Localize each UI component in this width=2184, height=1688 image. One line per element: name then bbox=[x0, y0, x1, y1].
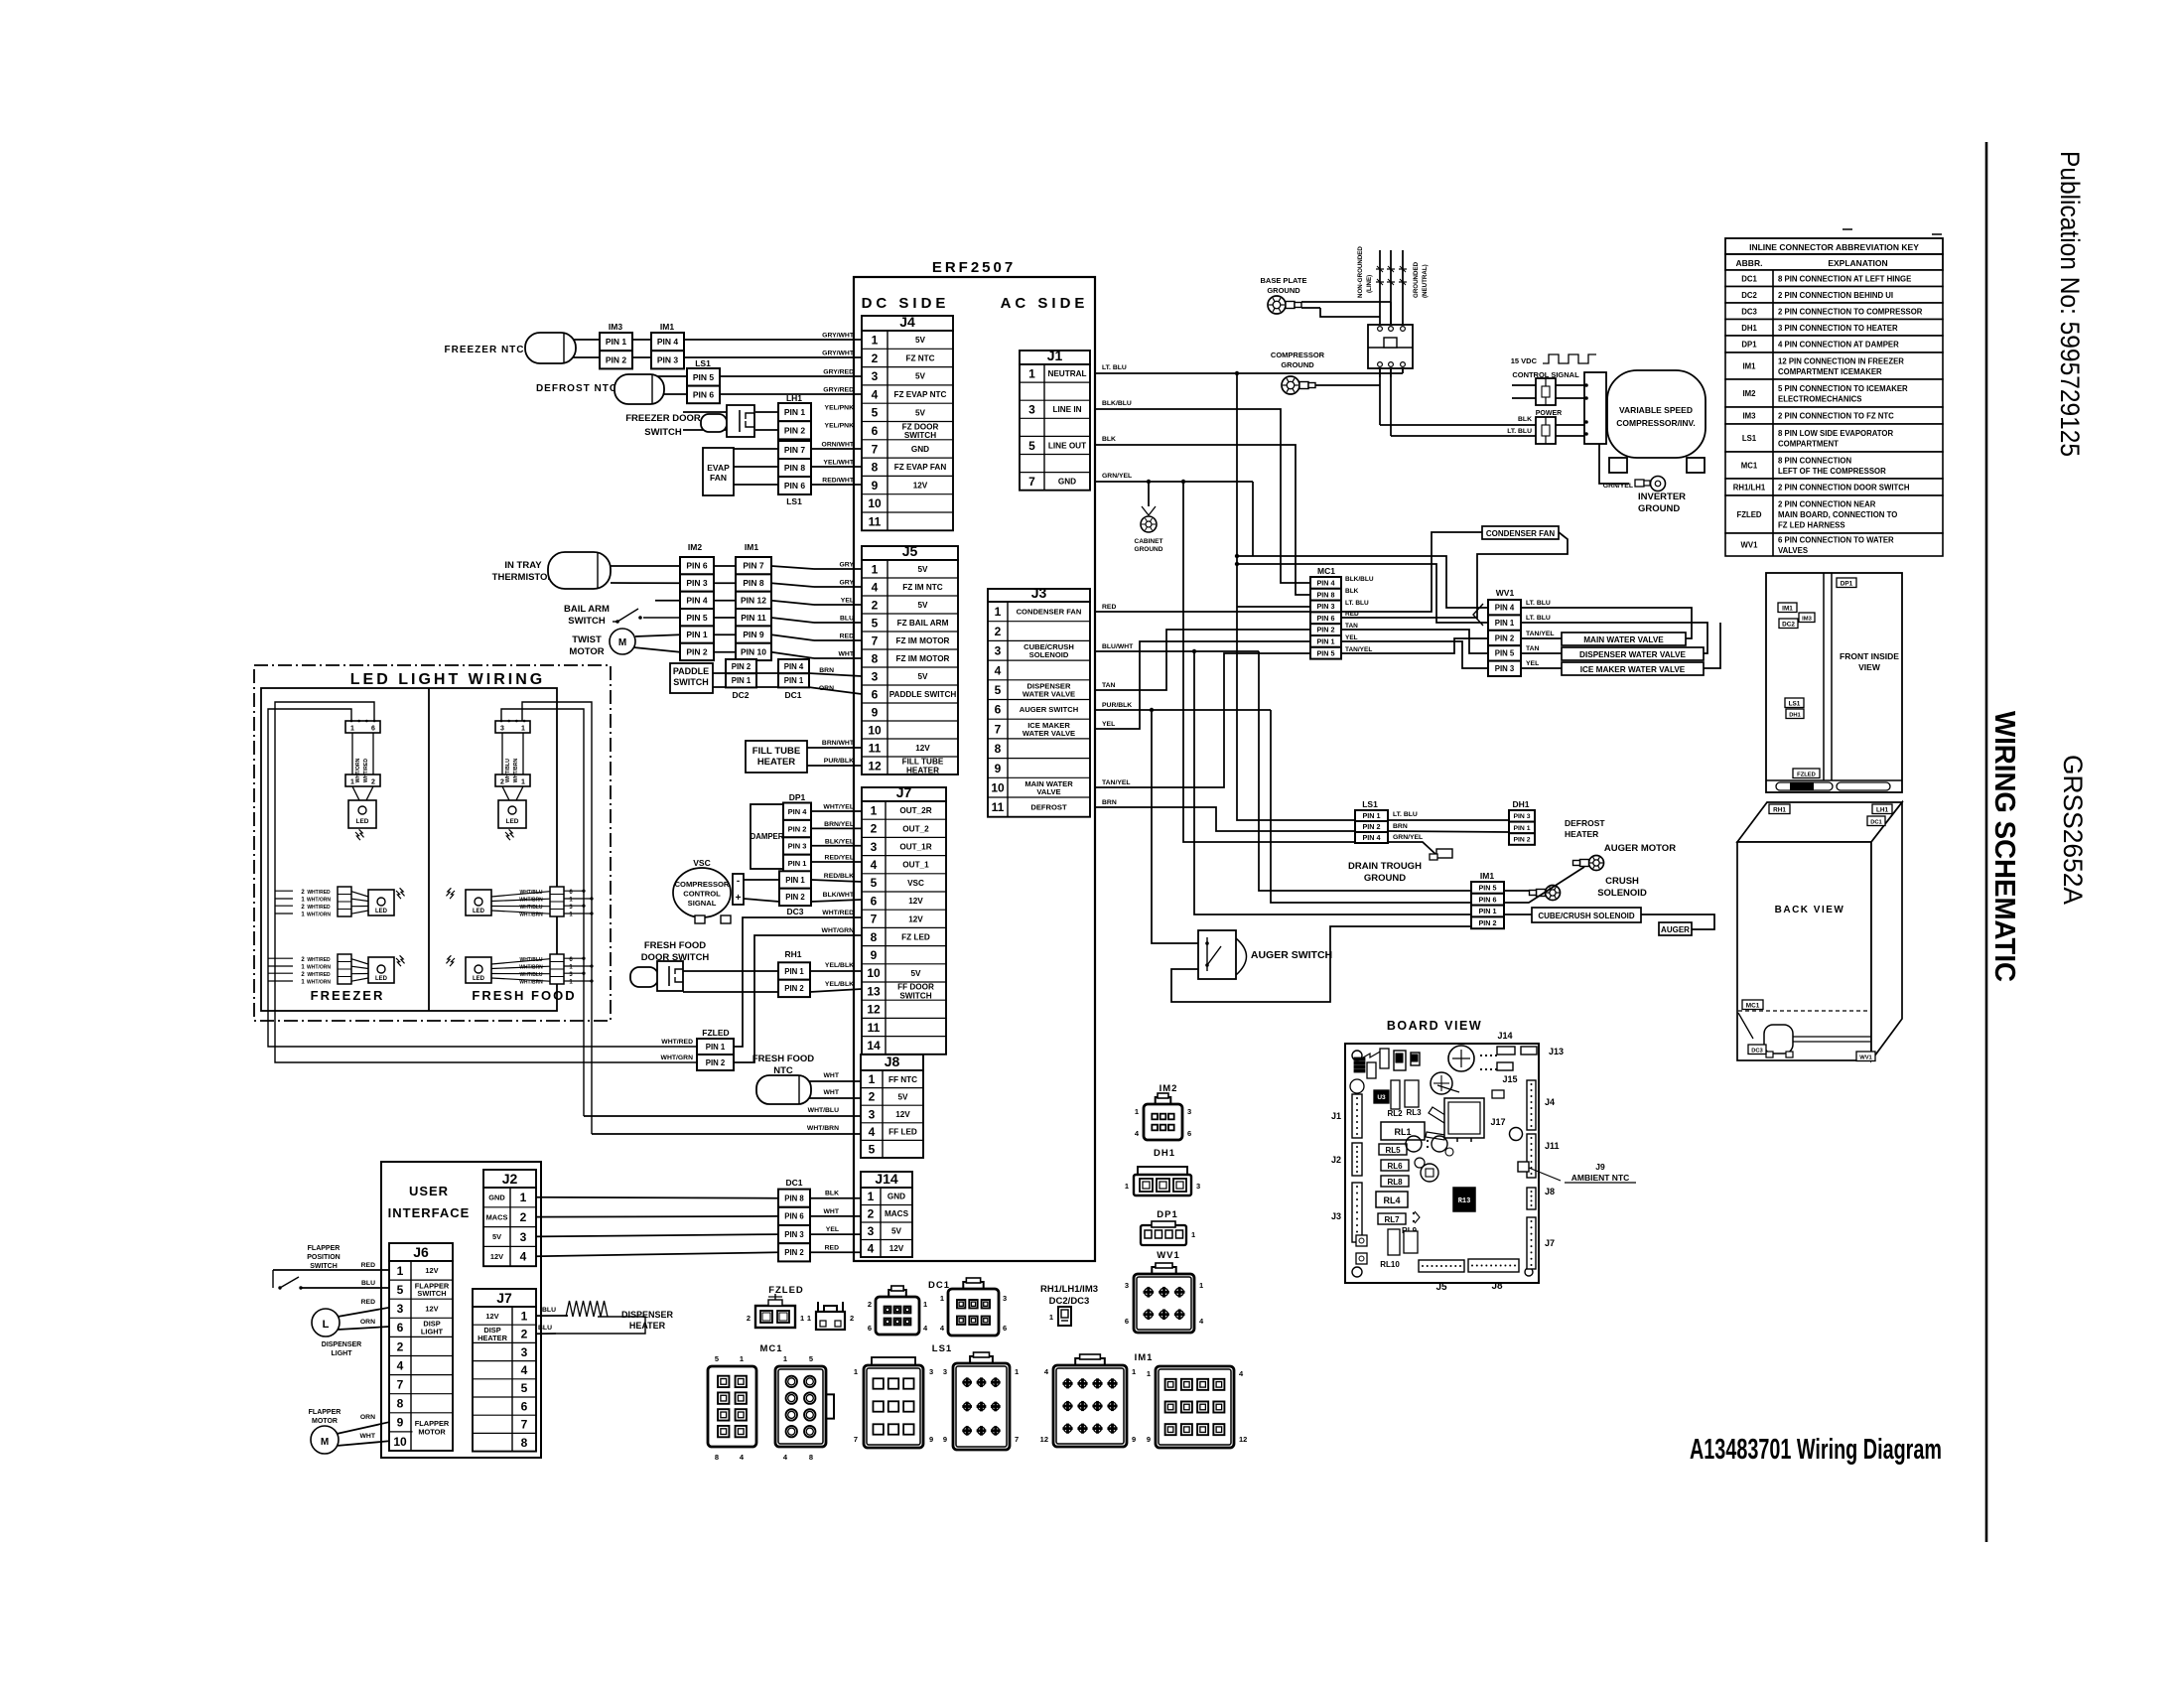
svg-text:U3: U3 bbox=[1377, 1094, 1386, 1101]
svg-text:PIN 4: PIN 4 bbox=[788, 807, 808, 816]
svg-text:5V: 5V bbox=[915, 408, 926, 417]
svg-text:J13: J13 bbox=[1549, 1047, 1564, 1056]
svg-text:5V: 5V bbox=[492, 1232, 501, 1241]
svg-text:GRY/RED: GRY/RED bbox=[823, 369, 854, 376]
svg-text:YEL: YEL bbox=[1102, 721, 1115, 728]
svg-text:DC2: DC2 bbox=[1782, 621, 1795, 628]
svg-text:ERF2507: ERF2507 bbox=[932, 259, 1016, 276]
svg-text:FZ EVAP FAN: FZ EVAP FAN bbox=[894, 463, 947, 472]
svg-text:OUT_1: OUT_1 bbox=[902, 861, 929, 870]
svg-text:GRN/YEL: GRN/YEL bbox=[1393, 834, 1423, 841]
svg-text:LS1: LS1 bbox=[1789, 700, 1801, 707]
svg-text:IM3: IM3 bbox=[1743, 412, 1757, 421]
svg-text:3: 3 bbox=[872, 369, 879, 383]
svg-text:FAN: FAN bbox=[710, 473, 727, 483]
svg-text:IM2: IM2 bbox=[1743, 389, 1757, 398]
svg-text:PIN 6: PIN 6 bbox=[693, 389, 715, 399]
svg-text:PIN 1: PIN 1 bbox=[606, 337, 627, 347]
svg-text:J9: J9 bbox=[1595, 1162, 1605, 1172]
svg-text:1: 1 bbox=[350, 726, 354, 733]
svg-text:WHT/BRN: WHT/BRN bbox=[519, 965, 543, 971]
svg-text:BRN/YEL: BRN/YEL bbox=[824, 821, 854, 828]
svg-text:WV1: WV1 bbox=[1741, 541, 1759, 550]
svg-text:POSITION: POSITION bbox=[307, 1254, 340, 1261]
svg-text:YEL/BLK: YEL/BLK bbox=[825, 962, 854, 969]
svg-text:FREEZER: FREEZER bbox=[311, 988, 385, 1003]
svg-text:3: 3 bbox=[872, 669, 879, 683]
svg-text:1: 1 bbox=[521, 726, 525, 733]
svg-text:VSC: VSC bbox=[907, 879, 924, 888]
svg-text:J1: J1 bbox=[1331, 1111, 1341, 1121]
svg-text:1: 1 bbox=[1191, 1230, 1195, 1239]
svg-text:SOLENOID: SOLENOID bbox=[1029, 650, 1069, 659]
svg-text:2: 2 bbox=[869, 1090, 876, 1104]
svg-text:J3: J3 bbox=[1331, 1211, 1341, 1221]
svg-text:WHT/BRN: WHT/BRN bbox=[519, 980, 543, 986]
svg-text:9: 9 bbox=[1132, 1435, 1136, 1444]
svg-text:M: M bbox=[321, 1437, 329, 1448]
svg-text:PIN 8: PIN 8 bbox=[743, 578, 764, 588]
svg-text:BAIL ARM: BAIL ARM bbox=[564, 604, 610, 615]
svg-text:FZ IM NTC: FZ IM NTC bbox=[902, 583, 943, 592]
svg-text:WHT/BLU: WHT/BLU bbox=[519, 972, 542, 978]
svg-text:PIN 1: PIN 1 bbox=[1317, 636, 1335, 645]
svg-text:LT. BLU: LT. BLU bbox=[1507, 428, 1532, 435]
svg-text:1: 1 bbox=[1028, 366, 1035, 380]
svg-text:J14: J14 bbox=[1497, 1031, 1512, 1041]
svg-text:J2: J2 bbox=[1331, 1155, 1341, 1165]
svg-text:YEL/WHT: YEL/WHT bbox=[823, 460, 854, 467]
svg-text:DEFROST: DEFROST bbox=[1030, 803, 1067, 812]
svg-text:ELECTROMECHANICS: ELECTROMECHANICS bbox=[1778, 394, 1861, 403]
svg-text:PIN 1: PIN 1 bbox=[784, 676, 804, 685]
svg-text:BLU: BLU bbox=[840, 616, 854, 623]
svg-text:WHT/RED: WHT/RED bbox=[307, 972, 331, 978]
svg-text:SWITCH: SWITCH bbox=[417, 1289, 446, 1298]
svg-text:1: 1 bbox=[521, 1309, 528, 1323]
svg-text:FZ LED: FZ LED bbox=[901, 932, 930, 941]
svg-text:4: 4 bbox=[871, 858, 878, 872]
svg-text:HEATER: HEATER bbox=[629, 1321, 666, 1331]
svg-text:1: 1 bbox=[1135, 1107, 1139, 1116]
svg-text:SWITCH: SWITCH bbox=[644, 427, 682, 438]
svg-text:WIRING SCHEMATIC: WIRING SCHEMATIC bbox=[1988, 711, 2020, 982]
svg-text:BLK: BLK bbox=[1345, 588, 1359, 595]
svg-text:1: 1 bbox=[995, 605, 1002, 619]
svg-text:VARIABLE SPEED: VARIABLE SPEED bbox=[1619, 405, 1693, 415]
svg-text:PIN 2: PIN 2 bbox=[1514, 836, 1531, 843]
svg-text:10: 10 bbox=[991, 780, 1005, 794]
svg-text:1: 1 bbox=[872, 333, 879, 347]
svg-text:8 PIN CONNECTION AT LEFT HINGE: 8 PIN CONNECTION AT LEFT HINGE bbox=[1778, 274, 1911, 283]
svg-text:2: 2 bbox=[872, 598, 879, 612]
svg-text:SWITCH: SWITCH bbox=[899, 991, 931, 1000]
svg-text:DH1: DH1 bbox=[1154, 1148, 1175, 1159]
svg-text:RED/BLK: RED/BLK bbox=[824, 873, 854, 880]
svg-text:8: 8 bbox=[872, 651, 879, 665]
svg-text:GROUNDED: GROUNDED bbox=[1413, 261, 1420, 298]
svg-text:COMPARTMENT: COMPARTMENT bbox=[1778, 439, 1839, 448]
svg-text:12V: 12V bbox=[485, 1312, 498, 1321]
svg-text:(NEUTRAL): (NEUTRAL) bbox=[1422, 264, 1429, 298]
svg-text:LIGHT: LIGHT bbox=[332, 1350, 353, 1357]
svg-text:BLU: BLU bbox=[542, 1307, 556, 1314]
svg-text:5: 5 bbox=[715, 1354, 719, 1363]
svg-text:4: 4 bbox=[868, 1242, 875, 1256]
svg-text:-: - bbox=[737, 876, 740, 887]
svg-text:BLK/WHT: BLK/WHT bbox=[823, 892, 855, 899]
svg-text:YEL/PNK: YEL/PNK bbox=[825, 423, 855, 430]
svg-text:4: 4 bbox=[995, 663, 1002, 677]
svg-text:WHT: WHT bbox=[839, 651, 855, 658]
svg-text:3: 3 bbox=[943, 1367, 947, 1376]
svg-text:MC1: MC1 bbox=[1741, 462, 1758, 471]
svg-text:AUGER: AUGER bbox=[1661, 925, 1690, 934]
svg-text:2 PIN CONNECTION TO COMPRESSOR: 2 PIN CONNECTION TO COMPRESSOR bbox=[1778, 307, 1923, 316]
svg-text:CONDENSER FAN: CONDENSER FAN bbox=[1017, 608, 1082, 617]
svg-text:ICE MAKER WATER VALVE: ICE MAKER WATER VALVE bbox=[1580, 665, 1686, 674]
svg-text:3: 3 bbox=[1125, 1281, 1129, 1290]
svg-text:MC1: MC1 bbox=[759, 1343, 782, 1354]
svg-text:J2: J2 bbox=[502, 1171, 518, 1187]
svg-text:PIN 11: PIN 11 bbox=[741, 613, 766, 623]
svg-text:DH1: DH1 bbox=[1512, 799, 1529, 809]
svg-text:LED: LED bbox=[506, 818, 519, 825]
svg-text:CRUSH: CRUSH bbox=[1605, 876, 1639, 887]
svg-text:5V: 5V bbox=[917, 565, 928, 574]
svg-text:12V: 12V bbox=[425, 1266, 438, 1275]
svg-text:DC1: DC1 bbox=[1741, 274, 1757, 283]
svg-text:DC3: DC3 bbox=[1741, 307, 1757, 316]
svg-text:DP1: DP1 bbox=[1157, 1209, 1177, 1220]
svg-text:6: 6 bbox=[1125, 1317, 1129, 1326]
svg-text:DC3: DC3 bbox=[786, 907, 803, 916]
svg-text:GND: GND bbox=[488, 1194, 505, 1202]
svg-text:LS1: LS1 bbox=[786, 496, 802, 506]
svg-text:SOLENOID: SOLENOID bbox=[1597, 888, 1647, 899]
svg-text:COMPRESSOR/INV.: COMPRESSOR/INV. bbox=[1616, 418, 1696, 428]
svg-text:PIN 3: PIN 3 bbox=[784, 1230, 804, 1239]
svg-text:8: 8 bbox=[809, 1453, 813, 1462]
svg-text:9: 9 bbox=[871, 948, 878, 962]
svg-text:VSC: VSC bbox=[693, 858, 710, 868]
svg-text:J17: J17 bbox=[1490, 1117, 1505, 1127]
svg-text:BRN: BRN bbox=[819, 667, 834, 674]
svg-text:DEFROST NTC: DEFROST NTC bbox=[536, 383, 617, 394]
svg-text:J6: J6 bbox=[413, 1244, 429, 1260]
svg-text:LIGHT: LIGHT bbox=[421, 1327, 444, 1336]
svg-text:1: 1 bbox=[1015, 1367, 1019, 1376]
svg-text:BOARD VIEW: BOARD VIEW bbox=[1387, 1019, 1482, 1033]
svg-text:12V: 12V bbox=[913, 482, 928, 491]
svg-text:6: 6 bbox=[871, 894, 878, 908]
svg-text:SWITCH: SWITCH bbox=[904, 431, 936, 440]
svg-text:9: 9 bbox=[995, 762, 1002, 775]
svg-text:DAMPER: DAMPER bbox=[751, 832, 784, 841]
svg-text:DC1: DC1 bbox=[785, 1178, 802, 1188]
svg-text:6: 6 bbox=[872, 687, 879, 701]
svg-text:WHT/ORN: WHT/ORN bbox=[307, 980, 331, 986]
svg-text:LINE IN: LINE IN bbox=[1052, 405, 1081, 414]
svg-text:IM1: IM1 bbox=[660, 322, 674, 332]
svg-text:5V: 5V bbox=[915, 372, 926, 381]
svg-text:J4: J4 bbox=[899, 314, 915, 330]
svg-text:BLK: BLK bbox=[1518, 416, 1532, 423]
svg-text:RL7: RL7 bbox=[1384, 1215, 1400, 1224]
svg-text:1: 1 bbox=[521, 779, 525, 786]
svg-text:1: 1 bbox=[740, 1354, 744, 1363]
svg-text:HEATER: HEATER bbox=[757, 757, 795, 768]
svg-text:LT. BLU: LT. BLU bbox=[1393, 811, 1418, 818]
svg-text:FRESH FOOD: FRESH FOOD bbox=[644, 940, 706, 951]
svg-text:WHT/ORN: WHT/ORN bbox=[355, 758, 361, 782]
svg-text:8: 8 bbox=[871, 930, 878, 944]
svg-text:FZLED: FZLED bbox=[1736, 510, 1761, 519]
svg-text:PIN 5: PIN 5 bbox=[1317, 648, 1335, 657]
svg-text:ORN/WHT: ORN/WHT bbox=[822, 442, 855, 449]
svg-text:RL4: RL4 bbox=[1383, 1196, 1400, 1205]
svg-text:1: 1 bbox=[520, 1191, 527, 1204]
svg-text:DISPENSER WATER VALVE: DISPENSER WATER VALVE bbox=[1579, 650, 1686, 659]
svg-text:YEL/BLK: YEL/BLK bbox=[825, 981, 854, 988]
svg-text:LS1: LS1 bbox=[1742, 434, 1757, 443]
svg-text:2: 2 bbox=[871, 822, 878, 836]
svg-text:PIN 2: PIN 2 bbox=[788, 824, 807, 833]
svg-text:LINE OUT: LINE OUT bbox=[1048, 441, 1086, 450]
svg-text:12: 12 bbox=[868, 759, 882, 773]
svg-text:DEFROST: DEFROST bbox=[1565, 818, 1605, 828]
svg-text:PIN 2: PIN 2 bbox=[732, 662, 751, 671]
svg-text:12V: 12V bbox=[895, 1110, 910, 1119]
svg-text:BASE PLATE: BASE PLATE bbox=[1261, 276, 1307, 285]
svg-text:HEATER: HEATER bbox=[478, 1334, 507, 1342]
svg-text:A13483701 Wiring Diagram: A13483701 Wiring Diagram bbox=[1690, 1434, 1942, 1466]
svg-text:IM1: IM1 bbox=[1782, 605, 1793, 612]
svg-text:1: 1 bbox=[940, 1294, 944, 1303]
svg-text:IM1: IM1 bbox=[1135, 1352, 1154, 1363]
svg-text:GRY/WHT: GRY/WHT bbox=[822, 333, 855, 340]
svg-text:IM2: IM2 bbox=[688, 542, 702, 552]
svg-text:2 PIN CONNECTION DOOR SWITCH: 2 PIN CONNECTION DOOR SWITCH bbox=[1778, 484, 1910, 492]
svg-text:TAN/YEL: TAN/YEL bbox=[1526, 631, 1555, 637]
svg-text:DH1: DH1 bbox=[1789, 712, 1801, 718]
svg-text:J7: J7 bbox=[896, 784, 912, 800]
svg-text:SIGNAL: SIGNAL bbox=[688, 899, 717, 908]
svg-text:MAIN WATER VALVE: MAIN WATER VALVE bbox=[1583, 635, 1664, 644]
svg-text:PIN 2: PIN 2 bbox=[686, 646, 708, 656]
svg-text:BRN/WHT: BRN/WHT bbox=[822, 740, 855, 747]
svg-text:PIN 2: PIN 2 bbox=[785, 893, 805, 902]
svg-text:COMPRESSOR: COMPRESSOR bbox=[675, 880, 730, 889]
svg-text:DC2: DC2 bbox=[1741, 291, 1757, 300]
svg-text:7: 7 bbox=[397, 1377, 404, 1391]
svg-text:11: 11 bbox=[869, 741, 882, 755]
svg-text:ORN: ORN bbox=[360, 1319, 375, 1326]
svg-text:PIN 2: PIN 2 bbox=[606, 354, 627, 364]
svg-text:1: 1 bbox=[872, 562, 879, 576]
svg-text:GRY: GRY bbox=[840, 580, 855, 587]
svg-text:PIN 7: PIN 7 bbox=[784, 445, 806, 455]
svg-text:SWITCH: SWITCH bbox=[673, 677, 709, 687]
svg-text:CABINET: CABINET bbox=[1135, 538, 1163, 545]
svg-text:FRESH FOOD: FRESH FOOD bbox=[752, 1054, 814, 1064]
svg-text:POWER: POWER bbox=[1536, 410, 1562, 417]
svg-text:LED: LED bbox=[375, 976, 388, 982]
svg-text:5: 5 bbox=[521, 1381, 528, 1395]
svg-text:RH1: RH1 bbox=[1773, 806, 1786, 813]
svg-text:PUR/BLK: PUR/BLK bbox=[824, 758, 854, 765]
svg-text:BLK/BLU: BLK/BLU bbox=[1102, 400, 1132, 407]
svg-text:7: 7 bbox=[1015, 1435, 1019, 1444]
svg-text:5V: 5V bbox=[891, 1227, 902, 1236]
svg-text:3: 3 bbox=[929, 1367, 933, 1376]
svg-text:MC1: MC1 bbox=[1317, 566, 1335, 576]
svg-text:BLU: BLU bbox=[361, 1280, 375, 1287]
svg-text:FF LED: FF LED bbox=[888, 1128, 917, 1137]
svg-text:COMPARTMENT ICEMAKER: COMPARTMENT ICEMAKER bbox=[1778, 367, 1882, 376]
svg-text:PIN 10: PIN 10 bbox=[741, 646, 766, 656]
svg-text:WHT/ORN: WHT/ORN bbox=[307, 913, 331, 918]
svg-text:FZ IM MOTOR: FZ IM MOTOR bbox=[896, 636, 950, 645]
svg-text:J7: J7 bbox=[1545, 1238, 1555, 1248]
svg-text:INLINE CONNECTOR ABBREVIATION: INLINE CONNECTOR ABBREVIATION KEY bbox=[1749, 242, 1919, 252]
svg-text:7: 7 bbox=[1028, 475, 1035, 489]
svg-text:1: 1 bbox=[1199, 1281, 1203, 1290]
svg-text:RL2: RL2 bbox=[1387, 1109, 1403, 1118]
svg-text:LED: LED bbox=[375, 909, 388, 914]
svg-text:9: 9 bbox=[943, 1435, 947, 1444]
svg-text:4 PIN CONNECTION AT DAMPER: 4 PIN CONNECTION AT DAMPER bbox=[1778, 341, 1899, 350]
svg-text:FRONT INSIDE: FRONT INSIDE bbox=[1840, 651, 1899, 661]
svg-text:1: 1 bbox=[868, 1190, 875, 1203]
svg-text:5: 5 bbox=[1028, 439, 1035, 453]
svg-text:MOTOR: MOTOR bbox=[312, 1418, 338, 1425]
svg-text:BLU/WHT: BLU/WHT bbox=[1102, 643, 1134, 650]
svg-text:13: 13 bbox=[867, 984, 881, 998]
svg-text:AC SIDE: AC SIDE bbox=[1001, 295, 1089, 312]
svg-text:WHT/BLU: WHT/BLU bbox=[808, 1107, 839, 1114]
svg-text:2: 2 bbox=[397, 1339, 404, 1353]
svg-text:FLAPPER: FLAPPER bbox=[308, 1245, 341, 1252]
svg-text:WHT/RED: WHT/RED bbox=[363, 759, 369, 782]
svg-text:YEL: YEL bbox=[1526, 660, 1539, 667]
svg-text:2 PIN CONNECTION NEAR: 2 PIN CONNECTION NEAR bbox=[1778, 500, 1876, 509]
svg-text:6: 6 bbox=[868, 1324, 872, 1333]
svg-text:3: 3 bbox=[1187, 1107, 1191, 1116]
svg-text:J1: J1 bbox=[1047, 348, 1063, 363]
svg-text:WHT/RED: WHT/RED bbox=[307, 905, 331, 911]
svg-text:J15: J15 bbox=[1502, 1074, 1517, 1084]
svg-text:PIN 4: PIN 4 bbox=[686, 595, 708, 605]
svg-text:WHT: WHT bbox=[360, 1433, 376, 1440]
svg-text:MACS: MACS bbox=[885, 1209, 909, 1218]
svg-text:PIN 3: PIN 3 bbox=[686, 578, 708, 588]
svg-text:WHT/ORN: WHT/ORN bbox=[307, 898, 331, 904]
svg-text:3: 3 bbox=[1028, 403, 1035, 417]
svg-text:FZLED: FZLED bbox=[768, 1285, 804, 1296]
svg-text:2: 2 bbox=[747, 1314, 751, 1323]
svg-text:BLK/BLU: BLK/BLU bbox=[1345, 576, 1374, 583]
svg-text:INTERFACE: INTERFACE bbox=[388, 1205, 471, 1220]
svg-text:RL10: RL10 bbox=[1380, 1260, 1400, 1269]
svg-text:3: 3 bbox=[871, 840, 878, 854]
svg-text:PIN 2: PIN 2 bbox=[1479, 918, 1497, 927]
svg-text:IM1: IM1 bbox=[1480, 871, 1494, 881]
svg-text:5V: 5V bbox=[897, 1092, 908, 1101]
svg-text:1: 1 bbox=[350, 779, 354, 786]
svg-text:J8: J8 bbox=[1491, 1281, 1503, 1292]
svg-text:FRESH FOOD: FRESH FOOD bbox=[472, 988, 576, 1003]
svg-text:AUGER SWITCH: AUGER SWITCH bbox=[1251, 949, 1332, 961]
svg-text:RED: RED bbox=[361, 1299, 375, 1306]
svg-text:1: 1 bbox=[397, 1264, 404, 1278]
svg-text:FREEZER DOOR: FREEZER DOOR bbox=[625, 413, 701, 424]
svg-text:8: 8 bbox=[521, 1436, 528, 1450]
svg-text:4: 4 bbox=[869, 1125, 876, 1139]
svg-text:1: 1 bbox=[1125, 1182, 1129, 1191]
svg-text:10: 10 bbox=[868, 723, 882, 737]
svg-text:NON-GROUNDED: NON-GROUNDED bbox=[1357, 246, 1364, 298]
svg-text:FLAPPER: FLAPPER bbox=[309, 1409, 341, 1416]
svg-text:WV1: WV1 bbox=[1859, 1055, 1872, 1060]
svg-text:AMBIENT NTC: AMBIENT NTC bbox=[1571, 1173, 1630, 1183]
svg-text:1: 1 bbox=[1049, 1313, 1053, 1322]
svg-text:GND: GND bbox=[911, 445, 929, 454]
svg-text:LT. BLU: LT. BLU bbox=[1526, 600, 1551, 607]
svg-text:PIN 6: PIN 6 bbox=[1479, 895, 1497, 904]
svg-text:WHT/BRN: WHT/BRN bbox=[807, 1125, 839, 1132]
svg-text:3: 3 bbox=[521, 1345, 528, 1359]
svg-text:PIN 2: PIN 2 bbox=[1317, 626, 1335, 634]
svg-text:SWITCH: SWITCH bbox=[568, 616, 606, 627]
svg-text:RL5: RL5 bbox=[1385, 1146, 1401, 1155]
svg-text:PIN 1: PIN 1 bbox=[706, 1043, 726, 1052]
svg-text:5: 5 bbox=[872, 406, 879, 420]
svg-text:1: 1 bbox=[1147, 1369, 1151, 1378]
svg-text:WHT/ORN: WHT/ORN bbox=[307, 965, 331, 971]
svg-text:YEL: YEL bbox=[1345, 634, 1358, 641]
svg-text:INVERTER: INVERTER bbox=[1638, 492, 1686, 502]
svg-text:PIN 4: PIN 4 bbox=[657, 337, 679, 347]
svg-text:DRAIN TROUGH: DRAIN TROUGH bbox=[1348, 861, 1422, 872]
svg-text:J14: J14 bbox=[875, 1171, 898, 1187]
svg-text:PIN 1: PIN 1 bbox=[1514, 825, 1531, 832]
svg-text:1: 1 bbox=[1132, 1367, 1136, 1376]
svg-text:RED: RED bbox=[361, 1262, 375, 1269]
svg-text:WHT/BLU: WHT/BLU bbox=[519, 905, 542, 911]
svg-text:RED: RED bbox=[1102, 604, 1116, 611]
svg-text:12V: 12V bbox=[908, 914, 923, 923]
svg-text:L: L bbox=[323, 1319, 330, 1331]
svg-text:MOTOR: MOTOR bbox=[418, 1428, 446, 1437]
svg-text:7: 7 bbox=[872, 442, 879, 456]
svg-text:WATER VALVE: WATER VALVE bbox=[1023, 729, 1075, 738]
svg-text:WHT/RED: WHT/RED bbox=[307, 890, 331, 896]
svg-text:RL1: RL1 bbox=[1394, 1127, 1411, 1137]
svg-text:1: 1 bbox=[800, 1314, 804, 1323]
svg-text:5V: 5V bbox=[917, 672, 928, 681]
svg-text:10: 10 bbox=[868, 496, 882, 510]
svg-text:4: 4 bbox=[521, 1363, 528, 1377]
svg-text:EVAP: EVAP bbox=[707, 463, 730, 473]
svg-text:RED: RED bbox=[825, 1244, 839, 1251]
svg-text:6: 6 bbox=[521, 1399, 528, 1413]
svg-text:PADDLE: PADDLE bbox=[673, 666, 709, 676]
svg-text:9: 9 bbox=[872, 705, 879, 719]
svg-text:PIN 1: PIN 1 bbox=[785, 876, 805, 885]
svg-text:RED/WHT: RED/WHT bbox=[822, 478, 855, 485]
svg-text:PIN 6: PIN 6 bbox=[784, 1212, 804, 1221]
